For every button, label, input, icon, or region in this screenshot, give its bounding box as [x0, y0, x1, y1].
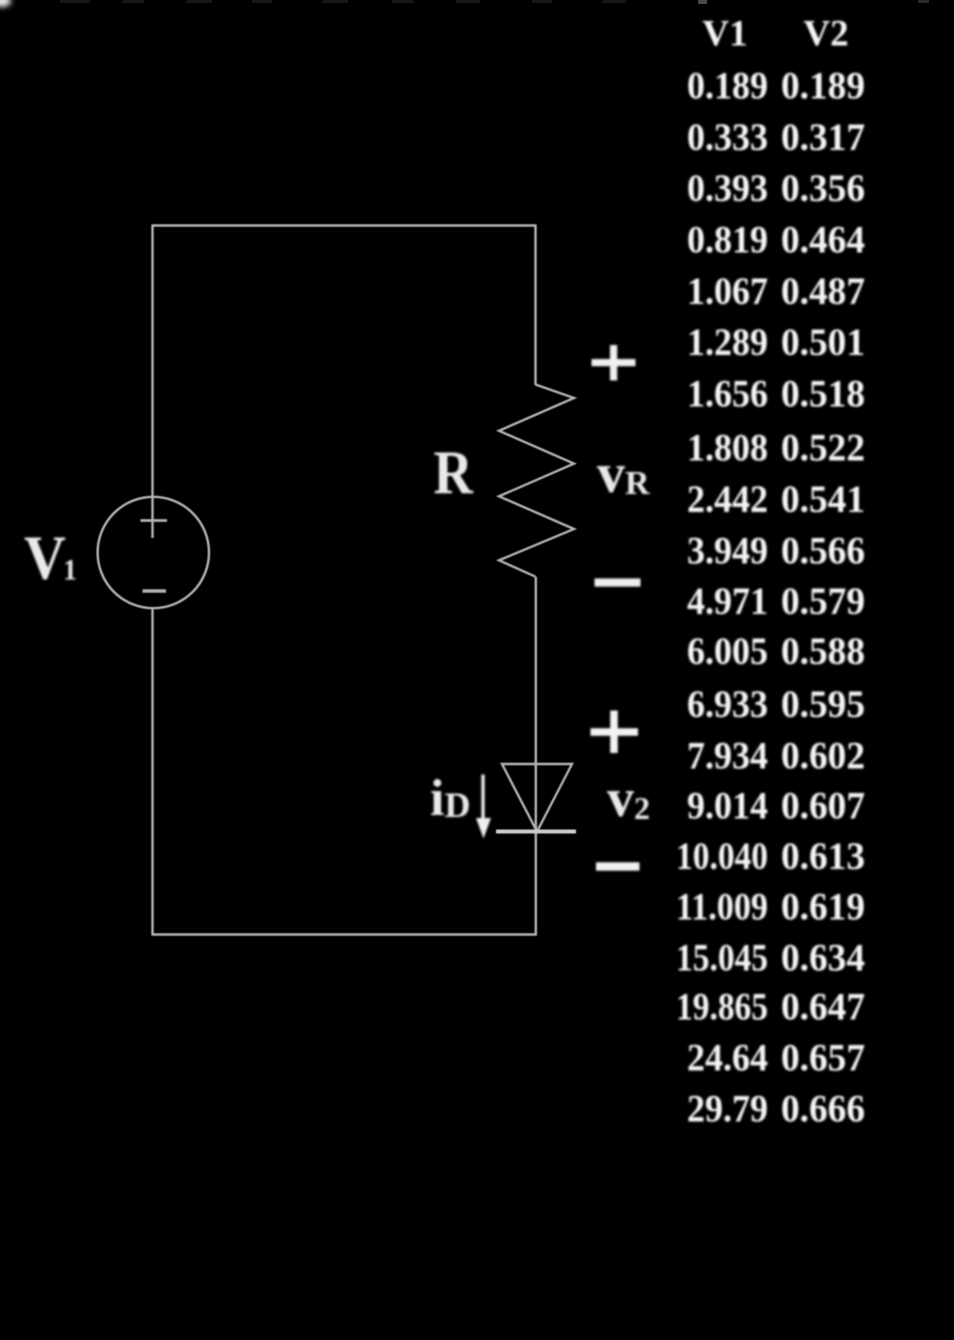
svg-text:0.356: 0.356: [781, 167, 865, 210]
iD arrow: [476, 775, 491, 839]
svg-text:0.487: 0.487: [781, 270, 865, 313]
svg-text:0.666: 0.666: [781, 1088, 865, 1131]
svg-text:V2: V2: [803, 14, 848, 55]
voltage source V1 circle: [98, 497, 209, 608]
wire bottom horizontal: [152, 933, 537, 935]
svg-text:24.64: 24.64: [687, 1037, 768, 1080]
wire right vertical lower (through diode to bottom): [535, 764, 537, 936]
svg-text:0.647: 0.647: [781, 986, 865, 1029]
wire left vertical upper (into source, forms + stem): [151, 225, 153, 539]
data table V1/V2: [676, 14, 865, 1131]
svg-text:0.819: 0.819: [687, 219, 768, 262]
svg-text:0.602: 0.602: [781, 734, 865, 777]
svg-text:0.189: 0.189: [781, 65, 865, 108]
svg-text:0.613: 0.613: [781, 835, 865, 878]
svg-text:0.518: 0.518: [781, 373, 865, 416]
wire right vertical upper: [534, 225, 536, 386]
svg-text:0.634: 0.634: [781, 937, 865, 980]
svg-text:1.289: 1.289: [687, 321, 768, 364]
svg-text:1.656: 1.656: [687, 373, 768, 416]
svg-text:0.393: 0.393: [687, 167, 768, 210]
svg-text:0.579: 0.579: [781, 580, 865, 623]
svg-text:0.189: 0.189: [687, 65, 768, 108]
voltage source plus crossbar: [141, 519, 168, 522]
svg-text:7.934: 7.934: [687, 734, 768, 777]
svg-text:1.808: 1.808: [687, 427, 768, 470]
svg-text:0.619: 0.619: [781, 886, 865, 929]
diode cathode bar: [496, 830, 576, 834]
svg-text:4.971: 4.971: [687, 580, 768, 623]
svg-text:1.067: 1.067: [687, 270, 768, 313]
plus sign (v2 polarity): [591, 711, 639, 754]
svg-text:10.040: 10.040: [676, 835, 768, 878]
svg-text:19.865: 19.865: [676, 986, 768, 1029]
svg-text:0.501: 0.501: [781, 321, 865, 364]
svg-text:29.79: 29.79: [687, 1088, 768, 1131]
diode D triangle: [502, 764, 572, 832]
svg-text:3.949: 3.949: [687, 530, 768, 573]
resistor R zigzag: [499, 385, 574, 577]
svg-text:2.442: 2.442: [687, 478, 768, 521]
scan artifact blob top-left corner: [0, 0, 11, 7]
minus sign (vR polarity): [595, 578, 641, 586]
svg-text:R: R: [434, 438, 474, 507]
svg-text:15.045: 15.045: [676, 937, 768, 980]
wire left vertical lower: [151, 608, 153, 936]
svg-text:V1: V1: [702, 14, 747, 55]
svg-text:0.588: 0.588: [781, 630, 865, 673]
plus sign (vR polarity): [592, 345, 636, 381]
svg-text:0.541: 0.541: [781, 478, 865, 521]
svg-text:0.522: 0.522: [781, 427, 865, 470]
wire right vertical middle (resistor to diode): [535, 577, 537, 764]
svg-text:11.009: 11.009: [676, 886, 768, 929]
svg-text:0.657: 0.657: [781, 1037, 865, 1080]
scan artifact faint dashes along top edge: [60, 0, 929, 4]
svg-text:0.607: 0.607: [781, 785, 865, 828]
svg-text:0.595: 0.595: [781, 683, 865, 726]
voltage source minus bar: [143, 589, 167, 592]
wire top horizontal: [152, 224, 537, 226]
svg-text:0.464: 0.464: [781, 219, 865, 262]
minus sign (v2 polarity): [596, 862, 640, 870]
svg-text:0.566: 0.566: [781, 530, 865, 573]
svg-text:0.317: 0.317: [781, 116, 865, 159]
svg-text:0.333: 0.333: [687, 116, 768, 159]
svg-text:9.014: 9.014: [687, 785, 768, 828]
svg-text:6.005: 6.005: [687, 630, 768, 673]
svg-text:6.933: 6.933: [687, 683, 768, 726]
